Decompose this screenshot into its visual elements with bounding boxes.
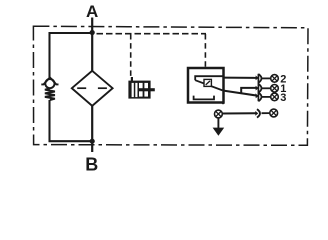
switch contact (lower) [194, 96, 214, 100]
socket arc earth [257, 109, 260, 117]
control line (dashed, to clogging indicator) [97, 33, 207, 35]
wire to pin 2 [224, 77, 257, 79]
terminal pin 2 [271, 75, 279, 83]
earth terminal on connector [270, 109, 278, 117]
pressure actuator symbol (small square) [204, 79, 211, 86]
wire to pin 3 (from lever) [224, 91, 257, 96]
terminal pin 3 [271, 93, 279, 101]
svg-text:3: 3 [280, 92, 286, 104]
wire: bypass branch lower run [50, 100, 93, 141]
enclosure boundary (filter assembly, chain line) [33, 26, 308, 145]
connector face (socket bar) [257, 74, 259, 101]
check valve ball [45, 79, 54, 88]
visual clogging indicator block [128, 77, 154, 99]
box ground stub [222, 103, 224, 105]
check valve spring [45, 88, 55, 100]
wire arc to terminal 1 [261, 87, 270, 89]
wire arc to earth terminal [262, 112, 270, 114]
wire to pin 1 (tap from pin-3 wire) [241, 88, 256, 94]
socket arc pin 2 [258, 74, 261, 83]
terminal pin 1 [271, 85, 279, 93]
filter element (dashed) [77, 87, 86, 89]
earth terminal at switch [215, 110, 223, 118]
wire: port A vertical line [91, 18, 93, 72]
wire arc to terminal 3 [261, 96, 270, 98]
socket arc pin 1 [258, 84, 261, 93]
filter F1 (diamond) [72, 71, 113, 106]
earth wire [222, 112, 256, 114]
wire: bypass branch upper run [50, 33, 93, 78]
check valve seat [41, 77, 58, 84]
control line drop to visual indicator (dashed) [130, 34, 132, 77]
socket arc pin 3 [258, 93, 261, 102]
node: bypass tee junction at B [90, 139, 95, 144]
switch lever (common) [195, 80, 222, 90]
control line drop to pressure switch (dashed) [204, 34, 206, 68]
wire arc to terminal 2 [261, 77, 270, 79]
wire: port B vertical line [91, 106, 93, 152]
node: bypass tee junction at A [90, 30, 95, 35]
switch contact (upper, to pin 2) [195, 76, 222, 80]
ground symbol (arrow down) [217, 118, 219, 128]
pressure switch S1 (box) [188, 68, 224, 103]
svg-text:B: B [85, 155, 98, 175]
